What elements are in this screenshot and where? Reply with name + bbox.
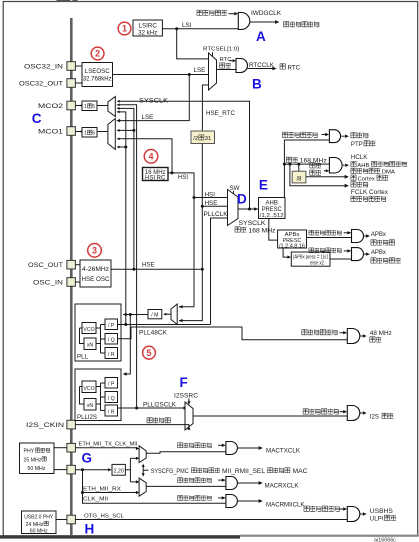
svg-text:FCLK Cortex: FCLK Cortex	[351, 189, 388, 196]
svg-text:DMA: DMA	[382, 170, 395, 176]
wire TX clock to mux	[75, 447, 137, 450]
svg-text:AHB: AHB	[266, 200, 278, 206]
svg-text:MACRXCLK: MACRXCLK	[265, 483, 299, 489]
svg-text:SYSCLK: SYSCLK	[239, 220, 267, 227]
prescaler AHB box	[259, 198, 286, 219]
svg-text:1: 1	[84, 131, 87, 137]
svg-text:2,20: 2,20	[113, 469, 124, 475]
svg-text:OSC_OUT: OSC_OUT	[28, 262, 63, 269]
svg-text:VCO: VCO	[83, 386, 94, 392]
svg-text:/8: /8	[296, 176, 302, 182]
wire HSI net	[171, 171, 174, 174]
label timer	[351, 182, 356, 187]
label to AHB bus core	[351, 161, 356, 166]
svg-text:SYSCFG_PMC: SYSCFG_PMC	[151, 469, 190, 475]
svg-text:RTCCLK: RTCCLK	[249, 62, 275, 69]
wire HSE_RTC to RTC mux	[202, 85, 208, 131]
USB PHY box	[22, 511, 57, 534]
pin square 9	[67, 465, 76, 474]
label ethernet PTP clock	[351, 133, 356, 138]
wire RTCCLK output	[248, 68, 273, 70]
and-gate I2S	[347, 406, 360, 421]
wire MACRX output	[237, 482, 258, 484]
wire OTG_HS clock to USB gate	[75, 519, 347, 521]
label external clock	[147, 418, 152, 423]
PHY ethernet box	[20, 443, 55, 474]
and-gate APBx peripheral	[352, 230, 364, 243]
wire /M output to PLLs	[124, 314, 149, 316]
label to RTC	[280, 64, 285, 69]
cropped header marks at top	[57, 0, 71, 2]
wire mux2 output to MACRX gate	[146, 485, 226, 487]
svg-text:LSI: LSI	[182, 22, 192, 29]
svg-text:32 kHz: 32 kHz	[138, 29, 157, 36]
pin square 5	[67, 260, 76, 269]
svg-text:/ R: / R	[108, 352, 115, 358]
svg-text:MACTXCLK: MACTXCLK	[266, 449, 300, 455]
wire AHB output bus	[284, 140, 329, 198]
svg-text:PLLI2SCLK: PLLI2SCLK	[143, 401, 177, 408]
and-gate MACRMIICLK	[226, 495, 238, 508]
wire USB gate output	[360, 513, 363, 515]
svg-text:SYSCLK: SYSCLK	[139, 98, 169, 105]
and-gate HCLK	[329, 158, 342, 174]
svg-text:Cortex: Cortex	[358, 176, 375, 182]
wire MCO1 input4 PLL	[118, 146, 126, 148]
wire USB PHY to pin	[56, 519, 67, 521]
pll xN box	[84, 338, 96, 350]
svg-text:5: 5	[92, 104, 95, 110]
wire OSC_IN pin to box	[75, 281, 80, 283]
svg-text:1: 1	[122, 24, 127, 34]
svg-text:MCO1: MCO1	[38, 128, 64, 135]
svg-text:H: H	[85, 522, 95, 537]
circled 1	[118, 22, 131, 35]
wire APBx to x1x2 box	[283, 248, 287, 257]
MACRMII enable label	[178, 495, 183, 500]
pin square 6	[67, 278, 76, 287]
and-gate PTP clock	[329, 130, 340, 143]
wire MACRMII output	[237, 500, 258, 502]
svg-text:C: C	[32, 111, 42, 126]
pll /R box	[105, 348, 118, 359]
oscillator HSI RC box	[143, 168, 169, 181]
mux SYSCLK select (D)	[228, 190, 239, 226]
divider /8 box	[292, 171, 306, 183]
svg-text:48 MHz: 48 MHz	[370, 330, 392, 337]
wire PLL /P output PLLCLK	[118, 324, 211, 326]
and-gate RTC	[236, 59, 248, 73]
wire HSE net from oscillator	[111, 268, 202, 270]
pll /P box	[105, 319, 118, 330]
oscillator LSIRC box	[133, 20, 162, 36]
svg-text:(APBx presc = 1)x1: (APBx presc = 1)x1	[293, 254, 329, 260]
svg-text:168 MHz: 168 MHz	[249, 227, 276, 234]
wire RTC mux output	[217, 69, 237, 71]
pin square 1	[67, 62, 76, 71]
svg-text:1: 1	[84, 104, 87, 110]
wire HSE to sysclk mux	[179, 144, 202, 321]
pll I2S outer box	[75, 369, 121, 421]
svg-text:/ M: / M	[151, 313, 158, 319]
svg-text:168 MHz: 168 MHz	[300, 158, 327, 165]
svg-text:24 MHz: 24 MHz	[26, 522, 44, 528]
svg-text:31: 31	[205, 136, 211, 142]
svg-text:I2SSRC: I2SSRC	[174, 392, 199, 399]
divider 1to5 box for MCO1	[82, 128, 97, 138]
plli2s xN box	[84, 399, 96, 411]
wire RX branch down	[83, 470, 226, 504]
svg-text:/ P: / P	[108, 382, 115, 388]
svg-text:4: 4	[148, 152, 153, 162]
svg-text:IWDGCLK: IWDGCLK	[251, 10, 282, 17]
wire PLLCLK vertical to MCO2 input4	[118, 112, 126, 325]
svg-text:4-26MHz: 4-26MHz	[82, 266, 109, 273]
pin square 10	[67, 515, 76, 524]
svg-text:RTC: RTC	[288, 64, 301, 71]
svg-text:RTCSEL[1:0]: RTCSEL[1:0]	[203, 47, 239, 53]
svg-text:PLL: PLL	[77, 354, 89, 361]
plli2s internal wires	[96, 386, 101, 388]
svg-text:HSE OSC: HSE OSC	[82, 276, 111, 283]
wire PHY to RX pin	[54, 469, 67, 471]
svg-text:PLLI2S: PLLI2S	[77, 414, 97, 421]
svg-text:LSE: LSE	[194, 67, 206, 74]
svg-text:HSE_RTC: HSE_RTC	[206, 110, 235, 117]
svg-text:USB2.0 PHY: USB2.0 PHY	[24, 514, 54, 520]
pll internal wires	[96, 327, 101, 329]
wire x1x2 output	[330, 258, 352, 260]
svg-text:32.768kHz: 32.768kHz	[83, 76, 112, 83]
svg-text:ULPI: ULPI	[370, 516, 384, 523]
svg-text:APBx: APBx	[371, 250, 386, 256]
svg-text:AHB: AHB	[357, 163, 369, 169]
wire LSE net	[113, 74, 209, 76]
wire MCO1 pin to divider	[75, 131, 82, 133]
and-gate MACTXCLK	[226, 442, 238, 455]
label max 168 MHz below mux	[235, 227, 240, 232]
wire PLL source mux output to /M	[164, 313, 171, 315]
divider 2,20 box	[112, 464, 125, 475]
wire APBx prescaler output	[307, 237, 352, 239]
watchdog enable label	[197, 10, 202, 15]
svg-text:HSI RC: HSI RC	[145, 176, 166, 182]
svg-text:CLK_MII: CLK_MII	[83, 496, 108, 502]
svg-text:/ P: / P	[108, 323, 115, 329]
wire APBx timer gate output	[364, 253, 367, 255]
svg-text:HSI: HSI	[178, 175, 188, 181]
wire APBx periph gate output	[364, 235, 367, 237]
pll VCO box	[82, 323, 96, 334]
pin square 4	[67, 127, 76, 136]
svg-text:ai16066c: ai16066c	[374, 537, 396, 542]
circled 3	[88, 244, 102, 258]
pin square 3	[67, 101, 76, 110]
circled 5	[143, 346, 156, 359]
I2S enable label	[303, 409, 308, 414]
mux PLL source select	[171, 304, 177, 325]
svg-text:MII_RMII_SEL: MII_RMII_SEL	[222, 469, 266, 475]
svg-text:A: A	[256, 29, 266, 44]
wire I2S gate output	[360, 412, 363, 414]
svg-text:PHY: PHY	[24, 449, 35, 455]
prescaler APBx box	[278, 230, 307, 248]
svg-text:B: B	[252, 77, 262, 92]
wire OSC_OUT pin to box	[75, 264, 80, 266]
svg-text:xN: xN	[87, 403, 94, 409]
MII_RMII_SEL select arrows	[142, 465, 144, 476]
wire PLLI2S vertical to MCO2 input2	[118, 105, 137, 408]
pin square 8	[67, 443, 76, 452]
svg-text:E: E	[259, 178, 268, 193]
USB enable label	[304, 506, 309, 511]
circled 2	[91, 47, 104, 60]
wire SYSCLK mux output to AHB prescaler	[238, 208, 259, 210]
svg-text:HSE: HSE	[205, 200, 218, 207]
svg-text:G: G	[82, 451, 93, 466]
svg-text:APBx: APBx	[371, 232, 386, 238]
svg-text:/ Q: / Q	[108, 396, 115, 402]
label to Cortex system	[351, 175, 356, 180]
svg-text:/2: /2	[193, 136, 198, 142]
svg-text:else x2: else x2	[310, 261, 324, 267]
svg-text:VCO: VCO	[83, 327, 94, 333]
svg-text:ETH_MII_TX_CLK_MII: ETH_MII_TX_CLK_MII	[79, 442, 138, 448]
divider /2to31 box	[191, 131, 215, 144]
svg-text:OSC_IN: OSC_IN	[33, 279, 63, 286]
oscillator HSE OSC box	[80, 260, 111, 287]
mux MII RMII select 1	[139, 446, 146, 463]
and-gate 48MHz	[347, 329, 360, 344]
wire OSC32_IN pin to LSEOSC	[75, 65, 82, 67]
plli2s VCO box	[82, 381, 96, 393]
wire 48MHz gate output	[360, 335, 363, 337]
mux MII RMII select 2	[139, 478, 146, 496]
divider /M box	[148, 310, 162, 319]
APBx timer enable label	[309, 248, 314, 253]
svg-text:5: 5	[146, 348, 151, 358]
svg-text:3: 3	[92, 246, 97, 256]
svg-text:ETH_MII_RX: ETH_MII_RX	[83, 486, 121, 492]
wire OSC32_OUT pin to LSEOSC	[75, 82, 82, 84]
label to-independent-watchdog	[284, 22, 289, 27]
svg-text:MCO2: MCO2	[38, 103, 64, 110]
plli2s /Q box	[105, 392, 118, 403]
wire RX pin to divider 2,20	[75, 469, 109, 471]
svg-text:5: 5	[92, 131, 95, 137]
svg-text:25 MHz: 25 MHz	[24, 457, 42, 463]
svg-text:USBHS: USBHS	[370, 508, 393, 515]
and-gate MACRXCLK	[226, 477, 238, 490]
and-gate APBx timer	[352, 248, 364, 261]
mux RTC source select	[212, 52, 214, 56]
mux MCO1 select	[108, 119, 115, 150]
svg-text:PLLCLK: PLLCLK	[204, 211, 229, 218]
wire PTP gate output	[342, 135, 345, 137]
pll main outer box	[75, 304, 121, 361]
pin square 7	[67, 420, 76, 429]
svg-text:OSC32_OUT: OSC32_OUT	[19, 80, 63, 87]
svg-text:OSC32_IN: OSC32_IN	[24, 63, 63, 70]
svg-text:F: F	[180, 375, 188, 390]
wire SYSCLK to MCO2 input1	[118, 101, 250, 209]
svg-text:PLL48CK: PLL48CK	[139, 330, 168, 337]
svg-text:LSEOSC: LSEOSC	[85, 68, 111, 75]
circled 4	[144, 150, 158, 164]
plli2s /R box	[105, 405, 118, 416]
svg-text:2: 2	[95, 49, 100, 59]
oscillator LSEOSC box	[82, 63, 113, 87]
wire MACTX output	[237, 447, 258, 449]
svg-text:/ Q: / Q	[108, 338, 115, 344]
label free running clock	[351, 196, 356, 201]
svg-text:HSE: HSE	[142, 262, 155, 269]
wire LSI branch to RTC mux	[177, 29, 209, 59]
wire 2,20 output split to muxes	[125, 469, 130, 471]
mux I2S source select	[188, 399, 190, 403]
mux MCO2 select	[108, 97, 115, 117]
chip boundary line	[70, 18, 73, 535]
wire /8 output to cortex timer	[306, 176, 345, 178]
APBx peripheral enable label	[309, 230, 314, 235]
svg-text:/ R: / R	[108, 410, 115, 416]
wire PLL /Q output PLL48CK	[118, 327, 348, 340]
plli2s /P box	[105, 378, 118, 389]
wire IWDGCLK output arrow	[250, 21, 275, 23]
svg-text:60 MHz: 60 MHz	[30, 528, 48, 534]
label memory and DMA	[351, 168, 356, 173]
wire PLLI2S /R output PLLI2SCLK	[118, 407, 186, 409]
label max 168 MHz AHB	[286, 157, 291, 162]
svg-text:PRESC: PRESC	[262, 207, 283, 213]
svg-text:LSIRC: LSIRC	[139, 22, 158, 29]
and-gate IWDG	[238, 13, 250, 30]
MACTX enable label	[178, 443, 183, 448]
ethernet PTP enable label	[282, 132, 287, 137]
svg-text:MAC: MAC	[293, 469, 309, 475]
wire PLLCLK to sysclk mux	[211, 218, 228, 325]
wire MCO1 input3 HSI	[118, 139, 172, 173]
pll /Q box	[105, 334, 118, 345]
wire MCO1 input2 HSE	[118, 129, 134, 131]
svg-text:/1,2..512: /1,2..512	[260, 213, 284, 219]
svg-text:HCLK: HCLK	[351, 154, 368, 161]
svg-text:50 MHz: 50 MHz	[28, 466, 46, 472]
wire HSE vertical to MCO2 input3	[118, 108, 134, 269]
svg-text:I2S_CKIN: I2S_CKIN	[26, 422, 64, 429]
pin square 2	[67, 79, 76, 88]
divider 1to5 box for MCO2	[82, 101, 97, 111]
and-gate USBHS	[347, 507, 360, 522]
svg-text:LSE: LSE	[142, 114, 154, 121]
svg-text:OTG_HS_SCL: OTG_HS_SCL	[84, 513, 125, 519]
wire AHB to APBx prescaler	[269, 219, 278, 241]
wire LSI to watchdog gate	[162, 28, 238, 30]
svg-text:I2S: I2S	[370, 414, 379, 421]
MACRX enable label	[178, 478, 183, 483]
wire HCLK gate output	[343, 164, 345, 166]
wire PHY to TX pin	[54, 447, 67, 449]
svg-text:PTP: PTP	[351, 141, 363, 148]
48MHz enable label	[302, 330, 307, 335]
wire I2S external clock from pin	[75, 425, 188, 429]
svg-text:HSI: HSI	[205, 191, 216, 198]
wire I2S mux output to gate	[193, 415, 347, 417]
svg-text:MACRMIICLK: MACRMIICLK	[266, 503, 305, 509]
wire MCO2 pin to divider	[75, 105, 82, 107]
svg-text:D: D	[237, 192, 247, 207]
svg-text:xN: xN	[87, 343, 94, 349]
wire mux1 output to MACTX gate	[146, 452, 226, 454]
clock enable label 2line	[310, 163, 315, 168]
multiplier x1x2 box	[291, 252, 330, 266]
